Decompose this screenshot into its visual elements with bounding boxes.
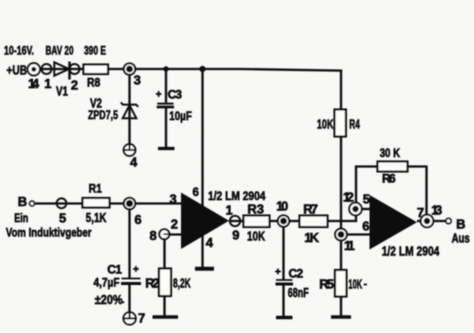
svg-text:+: + [275, 267, 281, 278]
svg-text:4: 4 [206, 235, 214, 250]
svg-text:7: 7 [311, 201, 318, 216]
svg-text:R8: R8 [87, 76, 101, 90]
svg-text:BAV 20: BAV 20 [46, 44, 74, 58]
svg-text:3: 3 [175, 88, 182, 102]
svg-text:6: 6 [389, 172, 396, 186]
svg-text:2: 2 [171, 217, 178, 232]
svg-text:-: - [364, 279, 367, 290]
svg-text:1: 1 [226, 203, 233, 218]
svg-text:3: 3 [134, 73, 141, 88]
svg-text:+: + [133, 265, 139, 276]
svg-text:5: 5 [59, 210, 66, 225]
svg-text:2: 2 [153, 276, 160, 290]
svg-text:Ein: Ein [14, 211, 28, 225]
svg-text:390 E: 390 E [84, 44, 106, 58]
svg-text:6: 6 [193, 187, 199, 199]
svg-text:4: 4 [32, 76, 40, 91]
svg-text:R1: R1 [89, 182, 103, 196]
svg-text:9: 9 [232, 227, 239, 242]
svg-text:R3: R3 [247, 201, 264, 216]
svg-text:B: B [18, 194, 27, 209]
svg-text:6: 6 [362, 219, 369, 234]
svg-text:±20%: ±20% [95, 293, 123, 307]
svg-text:10µF: 10µF [169, 109, 192, 123]
svg-text:1/2 LM 2904: 1/2 LM 2904 [382, 244, 440, 259]
svg-text:Vom Induktivgeber: Vom Induktivgeber [6, 226, 92, 240]
svg-text:7: 7 [138, 311, 145, 326]
svg-text:6: 6 [134, 212, 141, 227]
svg-text:2: 2 [71, 78, 78, 93]
svg-text:ZPD7,5: ZPD7,5 [88, 108, 118, 122]
svg-text:5: 5 [327, 276, 334, 291]
svg-text:7: 7 [417, 205, 424, 220]
svg-text:10K: 10K [247, 228, 266, 243]
svg-text:R4: R4 [349, 117, 360, 131]
svg-text:68nF: 68nF [288, 285, 309, 300]
svg-text:2: 2 [297, 266, 304, 280]
svg-text:5,1K: 5,1K [86, 210, 107, 225]
svg-text:+UB: +UB [7, 63, 28, 78]
svg-text:1: 1 [44, 76, 51, 91]
svg-text:Aus: Aus [452, 230, 470, 245]
svg-text:30 K: 30 K [380, 146, 401, 160]
svg-text:3: 3 [435, 204, 442, 218]
svg-text:8: 8 [150, 228, 157, 243]
svg-text:5: 5 [363, 192, 370, 207]
svg-text:10K: 10K [317, 117, 334, 132]
svg-text:4: 4 [130, 154, 138, 169]
svg-text:+: + [156, 90, 162, 101]
svg-text:8,2K: 8,2K [173, 276, 191, 290]
svg-text:K: K [310, 230, 320, 245]
svg-text:3: 3 [170, 192, 177, 207]
svg-text:1: 1 [348, 238, 355, 253]
svg-text:4,7µF: 4,7µF [94, 275, 120, 289]
svg-text:0: 0 [281, 200, 288, 214]
svg-text:V1: V1 [56, 84, 68, 99]
svg-text:10K: 10K [348, 276, 362, 291]
svg-text:2: 2 [347, 189, 354, 204]
svg-text:10-16V.: 10-16V. [4, 44, 34, 58]
